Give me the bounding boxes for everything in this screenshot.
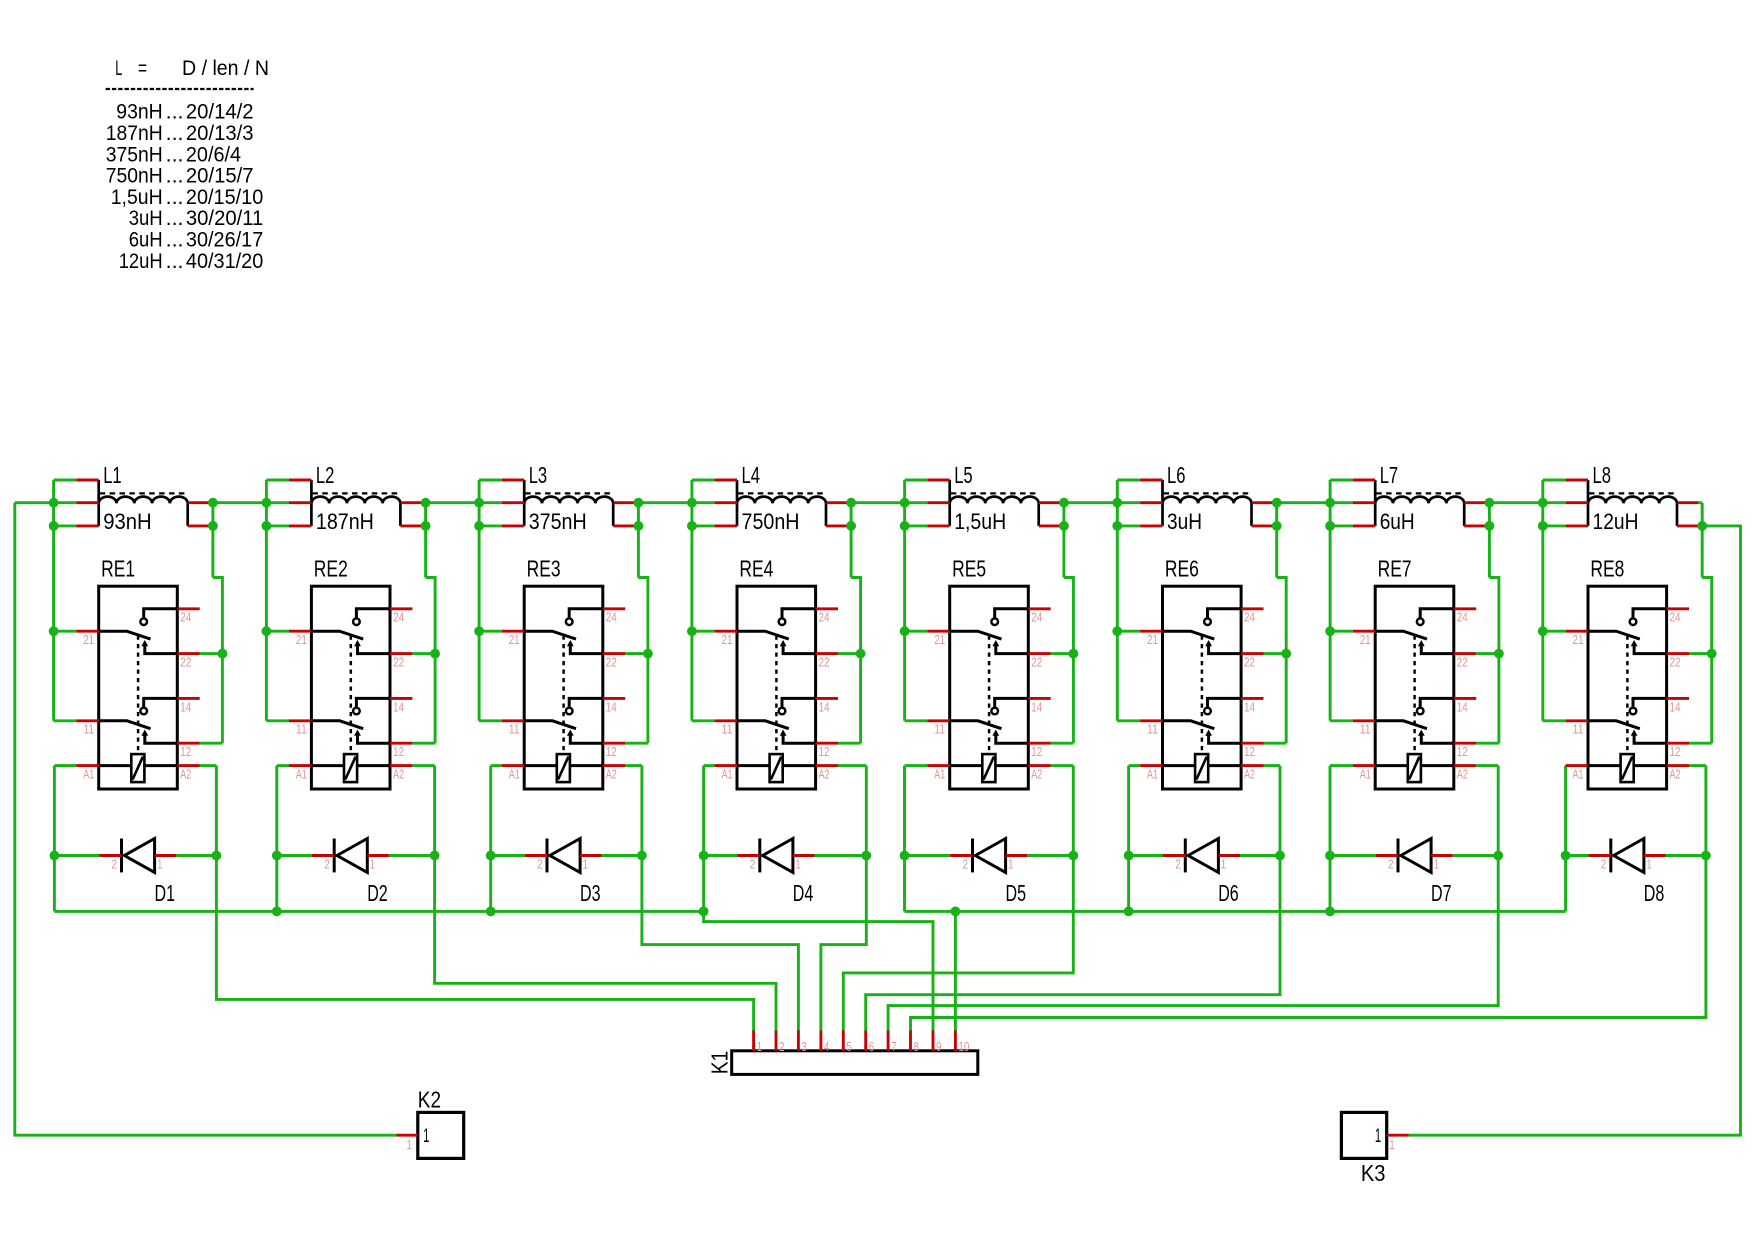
junction L2 bottom-left (262, 521, 272, 531)
wire RE7 pin A1 (1330, 764, 1353, 767)
svg-text:3: 3 (801, 1039, 807, 1054)
svg-text:1: 1 (1375, 1126, 1381, 1147)
junction L4 bottom-left (687, 521, 697, 531)
wire net from L1 to L2 (213, 501, 289, 504)
svg-text:D7: D7 (1431, 880, 1452, 906)
junction L7 middle-left (1325, 498, 1335, 508)
wire jog to relay contacts section 5 (1064, 578, 1074, 744)
svg-text:A1: A1 (722, 767, 733, 782)
wire jog to relay contacts section 6 (1277, 578, 1287, 744)
junction L1 middle-left (49, 498, 59, 508)
wire left vertical section 1 (52, 480, 55, 721)
wire L3 out bottom (634, 524, 638, 527)
wire L8 out middle (1698, 501, 1702, 504)
wire section 8 to K1 pin 8 (911, 766, 1706, 1031)
wire RE1 pin 12 (200, 742, 223, 745)
diode D2 (312, 839, 389, 873)
svg-text:1: 1 (757, 1039, 763, 1054)
svg-text:11: 11 (1360, 722, 1371, 737)
wire D2 anode side (277, 854, 312, 857)
junction D8 cathode (1701, 851, 1711, 861)
wire L6 out middle (1273, 501, 1277, 504)
svg-text:11: 11 (722, 722, 733, 737)
svg-text:21: 21 (509, 632, 520, 647)
wire L8 pin top (1543, 479, 1566, 482)
wire RE1 pin 11 (54, 719, 77, 722)
svg-text:21: 21 (296, 632, 307, 647)
svg-text:D8: D8 (1644, 880, 1665, 906)
svg-text:K3: K3 (1361, 1160, 1386, 1186)
wire A1 drop section 1 (53, 766, 56, 912)
wire RE3 pin 12 (625, 742, 648, 745)
svg-text:11: 11 (934, 722, 945, 737)
wire L4 out bottom (847, 524, 851, 527)
relay RE2 (289, 586, 412, 789)
svg-text:A1: A1 (509, 767, 520, 782)
wire jog to relay contacts section 4 (851, 578, 861, 744)
wire RE5 pin 12 (1051, 742, 1074, 745)
svg-text:21: 21 (1147, 632, 1158, 647)
wire left vertical section 4 (690, 480, 693, 721)
svg-text:24: 24 (180, 610, 191, 625)
junction L3 out middle (634, 498, 644, 508)
junction L4 middle-left (687, 498, 697, 508)
svg-text:21: 21 (722, 632, 733, 647)
svg-text:14: 14 (1244, 699, 1255, 714)
svg-text:A1: A1 (296, 767, 307, 782)
wire A1 drop section 7 (1329, 766, 1332, 912)
svg-text:22: 22 (1031, 655, 1042, 670)
wire RE2 pin 12 (412, 742, 435, 745)
svg-text:10: 10 (958, 1039, 969, 1054)
diode D6 (1163, 839, 1240, 873)
wire jog to relay contacts section 3 (638, 578, 648, 744)
wire D8 cathode side (1666, 854, 1706, 857)
svg-text:12: 12 (180, 744, 191, 759)
svg-text:1: 1 (370, 856, 376, 871)
svg-text:750nH: 750nH (742, 509, 800, 534)
svg-text:2: 2 (1601, 856, 1607, 871)
wire RE6 pin 11 (1117, 719, 1140, 722)
svg-text:A2: A2 (819, 767, 830, 782)
wire RE3 pin 21 (479, 630, 502, 633)
junction D6 cathode (1275, 851, 1285, 861)
wire net from L7 to L8 (1489, 501, 1565, 504)
svg-text:RE3: RE3 (527, 556, 561, 582)
svg-text:24: 24 (819, 610, 830, 625)
svg-text:A1: A1 (83, 767, 94, 782)
svg-text:14: 14 (180, 699, 191, 714)
relay RE5 (927, 586, 1050, 789)
wire D3 anode side (491, 854, 525, 857)
relay RE7 (1353, 586, 1476, 789)
svg-text:24: 24 (606, 610, 617, 625)
wire L4 pin top (692, 479, 715, 482)
svg-text:...: ... (166, 249, 184, 273)
wire left vertical section 7 (1329, 480, 1332, 721)
svg-text:D6: D6 (1218, 880, 1239, 906)
svg-text:12: 12 (393, 744, 404, 759)
wire bus to K1 pin 10 (954, 911, 957, 1030)
inductor L4 (715, 480, 847, 526)
svg-text:40/31/20: 40/31/20 (186, 249, 263, 273)
wire RE1 pin A1 (54, 764, 76, 767)
junction L2 out bottom (421, 521, 431, 531)
wire RE7 pin 12 (1476, 742, 1499, 745)
junction RE7 pin 22 (1494, 649, 1504, 659)
svg-text:22: 22 (393, 655, 404, 670)
junction D7 anode (1325, 851, 1335, 861)
wire RE6 pin A1 (1129, 764, 1140, 767)
svg-text:12uH: 12uH (119, 249, 163, 273)
wire RE2 pin 11 (266, 719, 289, 722)
junction RE1 pin 22 (218, 649, 228, 659)
wire L5 pin top (905, 479, 928, 482)
junction D1 anode (50, 851, 60, 861)
junction L3 middle-left (474, 498, 484, 508)
svg-text:21: 21 (1573, 632, 1584, 647)
svg-text:11: 11 (1573, 722, 1584, 737)
wire L1 out bottom (209, 524, 213, 527)
svg-text:11: 11 (83, 722, 94, 737)
svg-text:3uH: 3uH (1167, 509, 1202, 534)
junction D4 cathode (861, 851, 871, 861)
pin K1.8 (909, 1031, 912, 1051)
svg-text:1: 1 (1008, 856, 1014, 871)
svg-text:14: 14 (606, 699, 617, 714)
wire L2 pin top (266, 479, 289, 482)
wire RE7 pin 22 (1476, 652, 1499, 655)
svg-text:14: 14 (1457, 699, 1468, 714)
wire RE4 pin A2 (838, 764, 866, 767)
junction bus section 3 (486, 907, 496, 917)
wire bus A-net west segment (54, 910, 703, 913)
svg-text:A2: A2 (1031, 767, 1042, 782)
svg-text:A2: A2 (393, 767, 404, 782)
svg-text:2: 2 (779, 1039, 785, 1054)
wire RE8 pin 11 (1543, 719, 1566, 722)
junction D2 cathode (430, 851, 440, 861)
wire RE7 pin 11 (1330, 719, 1353, 722)
wire L8 out bottom (1698, 524, 1702, 527)
svg-text:187nH: 187nH (316, 509, 374, 534)
wire L6 pin top (1117, 479, 1140, 482)
wire L7 out bottom (1485, 524, 1489, 527)
wire right riser section 7 (1488, 503, 1491, 578)
svg-text:1: 1 (1389, 1137, 1395, 1152)
pin K3.1 (1387, 1134, 1409, 1137)
junction L7 out middle (1485, 498, 1495, 508)
svg-text:9: 9 (936, 1039, 942, 1054)
junction RE7 pin 21 (1325, 626, 1335, 636)
junction RE5 pin 22 (1069, 649, 1079, 659)
wire RE4 pin A1 (704, 764, 715, 767)
svg-text:L6: L6 (1167, 462, 1186, 488)
wire D2 cathode side (389, 854, 435, 857)
svg-text:14: 14 (819, 699, 830, 714)
wire L3 pin bottom (479, 524, 502, 527)
svg-text:12: 12 (1244, 744, 1255, 759)
wire left vertical section 3 (478, 480, 481, 721)
junction L8 bottom-left (1538, 521, 1548, 531)
wire D6 anode side (1129, 854, 1163, 857)
wire net to L1 middle pin (15, 501, 77, 504)
junction L1 out middle (208, 498, 218, 508)
svg-text:RE4: RE4 (739, 556, 773, 582)
svg-text:RE1: RE1 (101, 556, 135, 582)
wire RE8 pin 22 (1689, 652, 1712, 655)
svg-text:K1: K1 (707, 1051, 733, 1075)
wire section 1 to K1 pin 1 (216, 766, 753, 1031)
junction RE3 pin 22 (643, 649, 653, 659)
junction L6 bottom-left (1112, 521, 1122, 531)
wire L4 pin bottom (692, 524, 715, 527)
wire D8 anode side (1566, 854, 1589, 857)
wire section 4 to K1 pin 4 (821, 766, 866, 1031)
svg-text:A2: A2 (606, 767, 617, 782)
wire section 6 to K1 pin 6 (866, 766, 1280, 1031)
pin K2.1 (397, 1134, 418, 1137)
wire L1 pin top (54, 479, 77, 482)
inductor L3 (502, 480, 634, 526)
wire D7 cathode side (1453, 854, 1499, 857)
svg-text:22: 22 (1457, 655, 1468, 670)
wire section 2 to K1 pin 2 (435, 766, 776, 1031)
svg-text:24: 24 (1457, 610, 1468, 625)
svg-text:22: 22 (1244, 655, 1255, 670)
wire section 5 to K1 pin 5 (843, 766, 1073, 1031)
junction L5 bottom-left (900, 521, 910, 531)
wire RE4 pin 12 (838, 742, 861, 745)
wire L3 out middle (634, 501, 638, 504)
wire L7 out middle (1485, 501, 1489, 504)
svg-text:RE7: RE7 (1378, 556, 1412, 582)
junction D1 cathode (212, 851, 222, 861)
junction RE2 pin 21 (262, 626, 272, 636)
wire RE2 pin 21 (266, 630, 289, 633)
svg-text:L: L (115, 56, 122, 80)
wire RE7 pin 21 (1330, 630, 1353, 633)
svg-text:D5: D5 (1006, 880, 1027, 906)
svg-text:22: 22 (180, 655, 191, 670)
svg-text:24: 24 (1031, 610, 1042, 625)
node table separator (106, 88, 254, 90)
wire RE8 pin A1 (1564, 764, 1567, 767)
svg-text:A2: A2 (180, 767, 191, 782)
wire RE8 pin 21 (1543, 630, 1566, 633)
svg-text:L2: L2 (316, 462, 335, 488)
svg-text:14: 14 (1031, 699, 1042, 714)
wire RE6 pin 12 (1264, 742, 1287, 745)
wire RE5 pin 11 (905, 719, 928, 722)
junction L3 out bottom (634, 521, 644, 531)
svg-text:11: 11 (1147, 722, 1158, 737)
inductor L8 (1566, 480, 1698, 526)
svg-text:93nH: 93nH (103, 509, 151, 534)
wire section 3 to K1 pin 3 (642, 766, 799, 1031)
svg-text:21: 21 (1360, 632, 1371, 647)
junction L6 out bottom (1272, 521, 1282, 531)
wire A1 drop section 8 (1564, 766, 1567, 912)
svg-text:A1: A1 (934, 767, 945, 782)
wire L6 out bottom (1273, 524, 1277, 527)
svg-text:RE8: RE8 (1590, 556, 1624, 582)
svg-text:1: 1 (1221, 856, 1227, 871)
wire L6 pin bottom (1117, 524, 1140, 527)
svg-text:D / len / N: D / len / N (182, 56, 269, 80)
wire RE4 pin 22 (838, 652, 861, 655)
wire K3 net (1409, 526, 1741, 1135)
svg-text:2: 2 (324, 856, 330, 871)
pin K1.10 (954, 1031, 957, 1051)
junction L6 out middle (1272, 498, 1282, 508)
wire RE8 pin A2 (1689, 764, 1706, 767)
wire L1 out middle (209, 501, 213, 504)
junction bus section 6 (1124, 907, 1134, 917)
wire jog to relay contacts section 7 (1489, 578, 1499, 744)
junction RE8 pin 21 (1538, 626, 1548, 636)
pin K1.9 (932, 1031, 935, 1051)
svg-text:14: 14 (393, 699, 404, 714)
svg-text:1: 1 (795, 856, 801, 871)
wire D1 cathode side (176, 854, 216, 857)
relay RE6 (1140, 586, 1263, 789)
svg-text:=: = (138, 56, 147, 80)
wire L2 pin bottom (266, 524, 289, 527)
svg-text:12: 12 (819, 744, 830, 759)
connector K1 (732, 1051, 978, 1075)
wire RE6 pin 22 (1264, 652, 1287, 655)
svg-text:A1: A1 (1147, 767, 1158, 782)
wire left vertical section 5 (903, 480, 906, 721)
svg-text:7: 7 (891, 1039, 897, 1054)
junction D7 cathode (1493, 851, 1503, 861)
wire left vertical section 2 (265, 480, 268, 721)
junction RE6 pin 22 (1281, 649, 1291, 659)
junction L1 bottom-left (49, 521, 59, 531)
svg-text:5: 5 (846, 1039, 852, 1054)
wire L7 pin top (1330, 479, 1353, 482)
wire K2 net (15, 503, 397, 1135)
junction RE5 pin 21 (900, 626, 910, 636)
junction bus section 7 (1325, 907, 1335, 917)
wire bus to K1 pin 9 (704, 911, 933, 1030)
relay RE1 (76, 586, 199, 789)
junction L2 middle-left (262, 498, 272, 508)
junction RE2 pin 22 (430, 649, 440, 659)
svg-text:24: 24 (1244, 610, 1255, 625)
wire D5 cathode side (1027, 854, 1073, 857)
junction L7 out bottom (1485, 521, 1495, 531)
pin K1.3 (797, 1031, 800, 1051)
wire net from L4 to L5 (851, 501, 927, 504)
svg-text:24: 24 (1670, 610, 1681, 625)
svg-text:21: 21 (83, 632, 94, 647)
wire RE5 pin A2 (1051, 764, 1074, 767)
wire L5 pin bottom (905, 524, 928, 527)
connector K2 (418, 1112, 464, 1158)
wire jog to relay contacts section 2 (426, 578, 436, 744)
svg-text:L3: L3 (529, 462, 548, 488)
wire RE1 pin 21 (54, 630, 77, 633)
wire RE6 pin 21 (1117, 630, 1140, 633)
wire D3 cathode side (602, 854, 642, 857)
junction RE3 pin 21 (474, 626, 484, 636)
relay RE8 (1566, 586, 1689, 789)
connector K3 (1341, 1112, 1386, 1158)
wire L7 pin bottom (1330, 524, 1353, 527)
junction L5 out middle (1059, 498, 1069, 508)
svg-text:L8: L8 (1593, 462, 1612, 488)
junction L5 out bottom (1059, 521, 1069, 531)
junction bus section 4 (699, 907, 709, 917)
svg-text:D1: D1 (155, 880, 176, 906)
svg-text:11: 11 (509, 722, 520, 737)
junction D8 anode (1561, 851, 1571, 861)
wire D4 anode side (704, 854, 738, 857)
junction L8 out bottom (1697, 521, 1707, 531)
wire L2 out middle (421, 501, 425, 504)
wire right riser section 1 (211, 503, 214, 578)
wire right riser section 3 (637, 503, 640, 578)
svg-text:2: 2 (537, 856, 543, 871)
wire RE3 pin 22 (625, 652, 648, 655)
diode D4 (738, 839, 815, 873)
junction L2 out middle (421, 498, 431, 508)
wire D6 cathode side (1240, 854, 1280, 857)
svg-text:A1: A1 (1573, 767, 1584, 782)
junction RE1 pin 21 (49, 626, 59, 636)
wire D7 anode side (1330, 854, 1376, 857)
svg-text:D4: D4 (793, 880, 814, 906)
junction L7 bottom-left (1325, 521, 1335, 531)
junction D5 cathode (1068, 851, 1078, 861)
svg-text:1: 1 (583, 856, 589, 871)
wire A1 drop section 5 (903, 766, 906, 912)
junction bus section 2 (272, 907, 282, 917)
svg-text:1,5uH: 1,5uH (954, 509, 1006, 534)
svg-text:1: 1 (157, 856, 163, 871)
pin K1.6 (864, 1031, 867, 1051)
svg-text:2: 2 (963, 856, 969, 871)
svg-text:2: 2 (750, 856, 756, 871)
wire A1 drop section 2 (275, 766, 278, 912)
svg-text:L5: L5 (954, 462, 973, 488)
wire RE8 pin 12 (1689, 742, 1712, 745)
junction D3 anode (486, 851, 496, 861)
wire RE1 pin A2 (200, 764, 217, 767)
svg-text:L7: L7 (1380, 462, 1399, 488)
svg-text:22: 22 (1670, 655, 1681, 670)
svg-text:12: 12 (1031, 744, 1042, 759)
junction RE8 pin 22 (1707, 649, 1717, 659)
svg-text:RE5: RE5 (952, 556, 986, 582)
svg-text:6: 6 (869, 1039, 875, 1054)
wire right riser section 2 (424, 503, 427, 578)
wire RE3 pin A1 (491, 764, 502, 767)
wire A1 drop section 3 (489, 766, 492, 912)
svg-text:2: 2 (1175, 856, 1181, 871)
svg-text:L1: L1 (103, 462, 122, 488)
diode D5 (950, 839, 1027, 873)
diode D7 (1376, 839, 1453, 873)
inductor L5 (927, 480, 1059, 526)
wire RE2 pin A2 (412, 764, 434, 767)
wire D1 anode side (54, 854, 99, 857)
svg-text:A1: A1 (1360, 767, 1371, 782)
wire L5 out bottom (1060, 524, 1064, 527)
wire net from L5 to L6 (1064, 501, 1140, 504)
